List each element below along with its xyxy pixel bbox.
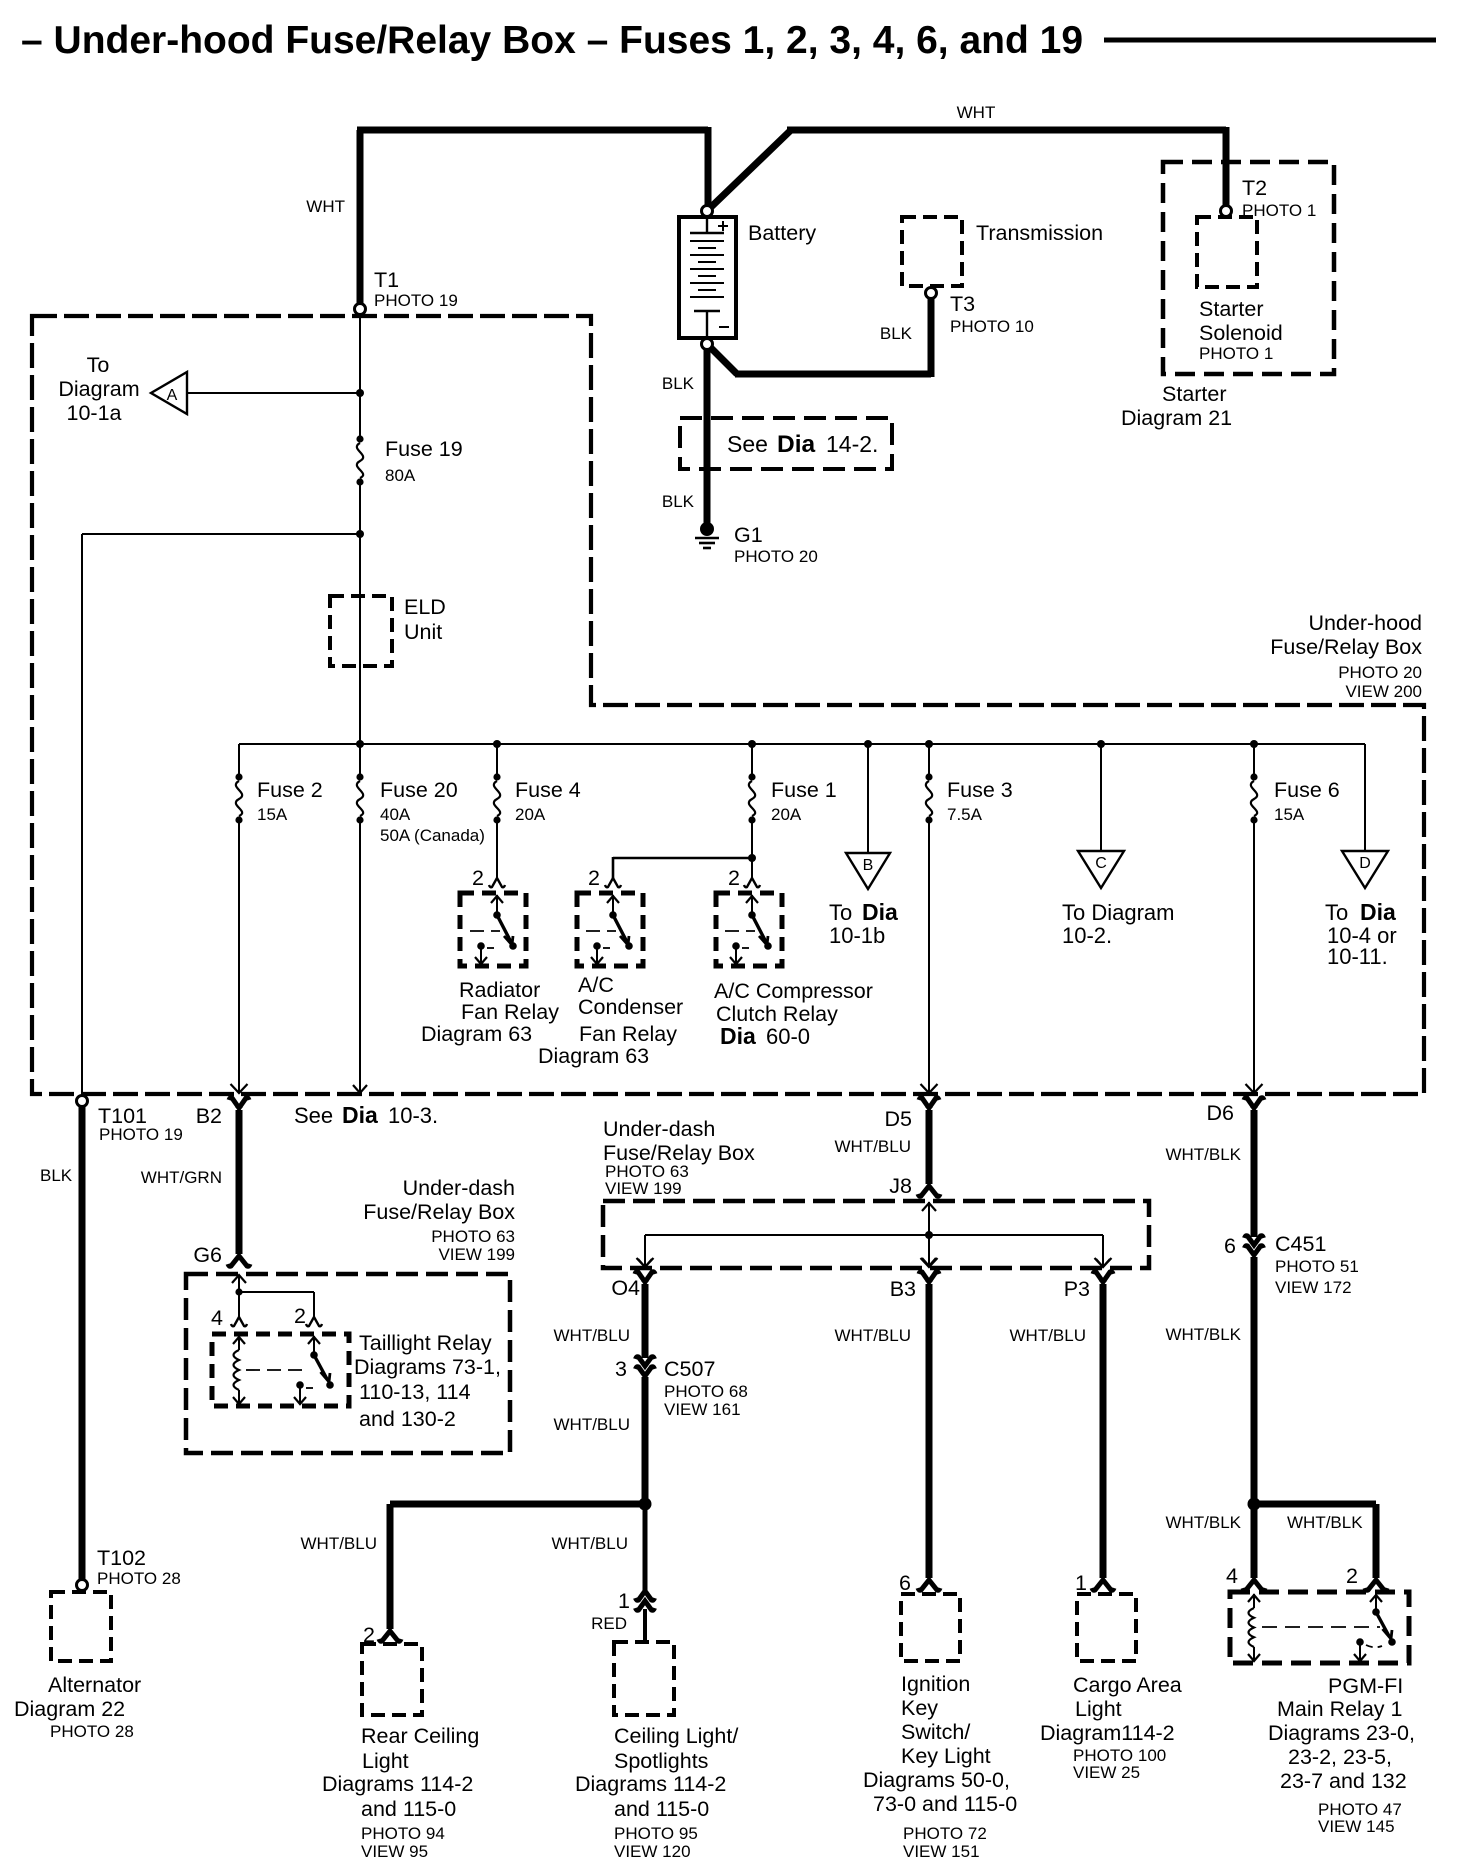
svg-text:Dia: Dia	[1360, 899, 1396, 925]
svg-text:PHOTO 10: PHOTO 10	[950, 317, 1034, 336]
svg-text:6: 6	[1224, 1234, 1236, 1258]
pin 4 taillight relay	[211, 1306, 247, 1330]
wire BLK battery negative to T3 transmission	[710, 297, 931, 377]
svg-text:WHT/BLU: WHT/BLU	[552, 1534, 629, 1553]
connector B3 exit	[890, 1258, 939, 1301]
fuse F6	[1250, 773, 1257, 823]
svg-text:VIEW 161: VIEW 161	[664, 1400, 741, 1419]
cargo area light box	[1077, 1594, 1136, 1661]
starter solenoid box	[1197, 217, 1257, 287]
svg-text:G6: G6	[193, 1243, 222, 1267]
svg-text:Diagrams 23-0,: Diagrams 23-0,	[1268, 1721, 1415, 1745]
wire WHT/BLK D6 to C451	[1251, 1110, 1258, 1237]
PGM-FI relay coil	[1248, 1594, 1260, 1661]
ground G1	[695, 522, 719, 548]
svg-text:VIEW 145: VIEW 145	[1318, 1817, 1395, 1836]
svg-text:WHT: WHT	[306, 197, 345, 216]
svg-text:Diagram: Diagram	[58, 377, 139, 401]
svg-text:VIEW 200: VIEW 200	[1345, 682, 1422, 701]
svg-text:To Diagram: To Diagram	[1062, 900, 1174, 925]
label BLK upper	[662, 374, 695, 393]
svg-text:G1: G1	[734, 523, 763, 547]
svg-text:T2: T2	[1242, 176, 1267, 200]
svg-text:Fuse/Relay Box: Fuse/Relay Box	[1270, 635, 1422, 659]
node bus T1 column	[356, 740, 364, 748]
svg-text:Condenser: Condenser	[578, 995, 683, 1019]
svg-text:Diagram 63: Diagram 63	[421, 1022, 532, 1046]
svg-text:P3: P3	[1064, 1277, 1090, 1301]
arrow see dia 10-3 exit	[353, 1085, 367, 1093]
wire bus to fuse 2	[238, 744, 240, 777]
wire bus to fuse 4	[496, 744, 498, 777]
svg-text:WHT/BLK: WHT/BLK	[1165, 1325, 1241, 1344]
label Fuse 2 15A	[257, 778, 323, 824]
svg-text:WHT/BLU: WHT/BLU	[554, 1326, 631, 1345]
pin 2 PGM-FI main relay	[1346, 1564, 1387, 1590]
fuse F3	[925, 773, 932, 823]
label WHT/BLU ceiling	[552, 1534, 629, 1553]
wire to diagram A arrow	[188, 392, 360, 394]
pin 4 PGM-FI main relay	[1226, 1564, 1265, 1590]
wire ELD to bus	[359, 666, 361, 744]
ignition key switch box	[901, 1594, 960, 1661]
AC condenser fan relay contact	[586, 895, 633, 964]
node bus branch B	[864, 740, 872, 748]
svg-text:BLK: BLK	[662, 374, 695, 393]
connector O4 exit	[611, 1258, 655, 1300]
connector G6 entry	[193, 1243, 250, 1267]
svg-text:23-7 and 132: 23-7 and 132	[1280, 1769, 1407, 1793]
wire bus to triangle C	[1100, 744, 1102, 851]
svg-text:2: 2	[294, 1304, 306, 1328]
label Ignition Key Switch block	[863, 1672, 1017, 1861]
pin 2 AC condenser fan relay	[588, 866, 621, 890]
label BLK T101 wire	[40, 1166, 73, 1185]
label WHT/BLK D6 mid	[1165, 1325, 1241, 1344]
svg-text:PHOTO 51: PHOTO 51	[1275, 1257, 1359, 1276]
svg-text:10-11.: 10-11.	[1327, 944, 1388, 969]
label T3	[950, 292, 1034, 336]
svg-text:VIEW 25: VIEW 25	[1073, 1763, 1140, 1782]
svg-text:PHOTO 94: PHOTO 94	[361, 1824, 445, 1843]
triangle B to dia 10-1b	[846, 853, 890, 889]
label Fuse 1 20A	[771, 778, 837, 824]
svg-text:D: D	[1359, 855, 1371, 872]
svg-text:WHT/BLU: WHT/BLU	[835, 1326, 912, 1345]
svg-text:14-2.: 14-2.	[826, 431, 878, 457]
transmission box	[902, 217, 962, 286]
label Taillight Relay Diagrams	[354, 1331, 501, 1431]
svg-text:Main Relay 1: Main Relay 1	[1277, 1697, 1402, 1721]
svg-text:Starter: Starter	[1199, 297, 1264, 321]
label Starter Solenoid	[1199, 297, 1283, 363]
label AC Condenser Fan Relay Diagram 63	[538, 973, 683, 1068]
svg-text:PHOTO 20: PHOTO 20	[1338, 663, 1422, 682]
svg-text:Fan Relay: Fan Relay	[461, 1000, 559, 1024]
svg-text:2: 2	[728, 866, 740, 890]
svg-text:D5: D5	[885, 1107, 913, 1131]
wire bus to fuse 1	[751, 744, 753, 777]
fuse F19	[356, 435, 363, 485]
svg-text:4: 4	[211, 1306, 223, 1330]
AC compressor clutch relay box	[716, 893, 782, 966]
svg-text:50A (Canada): 50A (Canada)	[380, 826, 485, 845]
label See Dia 10-3	[294, 1102, 438, 1128]
alternator box	[51, 1592, 111, 1661]
wire WHT/BLU O4 to C507	[642, 1284, 649, 1358]
pin 2 taillight relay	[294, 1304, 322, 1328]
svg-text:Dia: Dia	[720, 1023, 756, 1049]
under-dash fuse relay box G6 outline	[186, 1274, 510, 1453]
svg-text:Under-hood: Under-hood	[1308, 611, 1422, 635]
terminal T3	[926, 288, 937, 299]
svg-text:1: 1	[1075, 1571, 1087, 1595]
svg-text:4: 4	[1226, 1564, 1238, 1588]
svg-text:A: A	[167, 387, 178, 404]
node fuse1 branch to condenser relay	[748, 854, 756, 862]
svg-text:PHOTO 72: PHOTO 72	[903, 1824, 987, 1843]
wire bus to fuse 20	[359, 744, 361, 777]
svg-text:See: See	[294, 1103, 333, 1128]
label WHT/BLK D6 upper	[1165, 1145, 1241, 1164]
svg-text:Solenoid: Solenoid	[1199, 321, 1283, 345]
label T102	[97, 1546, 181, 1588]
label To Diagram 10-1a	[58, 353, 139, 425]
title rule line	[1104, 38, 1436, 43]
svg-text:2: 2	[472, 866, 484, 890]
svg-text:Fan Relay: Fan Relay	[579, 1022, 677, 1046]
wire to taillight pin 4	[238, 1292, 240, 1317]
label Fuse 19 80A	[385, 437, 463, 485]
wire fuse 1 down	[751, 820, 753, 878]
svg-text:Dia: Dia	[777, 431, 816, 458]
label AC Compressor Clutch Relay Dia 60-0	[714, 979, 873, 1049]
node ceiling light junction	[639, 1498, 652, 1511]
svg-text:PGM-FI: PGM-FI	[1328, 1674, 1403, 1698]
wire WHT/BLU P3 to cargo light	[1100, 1284, 1107, 1578]
svg-text:VIEW 199: VIEW 199	[438, 1245, 515, 1264]
terminal T1	[355, 304, 366, 315]
label WHT/BLU B3	[835, 1326, 912, 1345]
svg-text:T3: T3	[950, 292, 975, 316]
svg-text:WHT/BLK: WHT/BLK	[1165, 1513, 1241, 1532]
svg-text:80A: 80A	[385, 466, 416, 485]
PGM-FI relay link dashes	[1262, 1626, 1380, 1628]
svg-text:Cargo Area: Cargo Area	[1073, 1673, 1182, 1697]
svg-text:B2: B2	[196, 1104, 222, 1128]
wire WHT/BLU D5 to J8	[926, 1110, 933, 1184]
svg-text:Fuse 19: Fuse 19	[385, 437, 463, 461]
label WHT/GRN	[141, 1168, 222, 1187]
svg-text:Dia: Dia	[342, 1102, 378, 1128]
svg-text:A/C: A/C	[578, 973, 614, 997]
triangle D to dia 10-4 or 10-11	[1342, 851, 1388, 888]
starter outer box	[1163, 162, 1334, 374]
node bus fuse 6	[1250, 740, 1258, 748]
svg-text:Transmission: Transmission	[976, 221, 1103, 245]
svg-text:10-3.: 10-3.	[388, 1103, 438, 1128]
svg-text:Diagram 21: Diagram 21	[1121, 406, 1232, 430]
svg-text:Key: Key	[901, 1696, 938, 1720]
terminal T101 on box edge	[77, 1096, 88, 1107]
svg-text:PHOTO 63: PHOTO 63	[431, 1227, 515, 1246]
label WHT/BLU O4	[554, 1326, 631, 1345]
label WHT/BLK pin2	[1287, 1513, 1363, 1532]
svg-text:Alternator: Alternator	[48, 1673, 141, 1697]
label To Dia 10-1b	[829, 899, 898, 948]
svg-text:and 115-0: and 115-0	[614, 1797, 709, 1821]
radiator fan relay contact	[470, 895, 517, 964]
arrow to P3	[1096, 1259, 1110, 1267]
arrow to O4	[638, 1259, 652, 1267]
svg-text:C: C	[1095, 855, 1107, 872]
label To Diagram 10-2	[1062, 900, 1174, 948]
svg-text:15A: 15A	[1274, 805, 1305, 824]
label Fuse 4 20A	[515, 778, 581, 824]
wire branch to AC condenser relay	[613, 857, 752, 878]
svg-text:Under-dash: Under-dash	[403, 1176, 515, 1200]
svg-text:PHOTO 28: PHOTO 28	[97, 1569, 181, 1588]
svg-text:WHT/BLK: WHT/BLK	[1287, 1513, 1363, 1532]
svg-text:10-2.: 10-2.	[1062, 923, 1112, 948]
label WHT/BLU rear ceiling	[301, 1534, 378, 1553]
svg-text:6: 6	[899, 1571, 911, 1595]
wire bus to fuse 3	[928, 744, 930, 777]
pin 2 rear ceiling light	[363, 1623, 401, 1647]
svg-text:Rear Ceiling: Rear Ceiling	[361, 1724, 479, 1748]
svg-text:ELD: ELD	[404, 595, 446, 619]
label WHT/BLK pin4	[1165, 1513, 1241, 1532]
connector J8 entry	[889, 1174, 940, 1198]
svg-text:Diagram 22: Diagram 22	[14, 1697, 125, 1721]
svg-text:– Under-hood Fuse/Relay Box –: – Under-hood Fuse/Relay Box – Fuses 1, 2…	[21, 19, 1083, 62]
wire bus to triangle D	[1364, 744, 1366, 851]
taillight relay contact	[294, 1336, 334, 1404]
svg-text:Taillight Relay: Taillight Relay	[359, 1331, 492, 1355]
label WHT top wire	[957, 103, 996, 122]
svg-text:WHT/BLU: WHT/BLU	[301, 1534, 378, 1553]
svg-text:To: To	[1325, 900, 1348, 925]
svg-text:Under-dash: Under-dash	[603, 1117, 715, 1141]
svg-text:A/C Compressor: A/C Compressor	[714, 979, 873, 1003]
wire fuse 2 to B2 exit	[238, 820, 240, 1092]
label WHT/BLU P3	[1010, 1326, 1087, 1345]
svg-text:2: 2	[588, 866, 600, 890]
svg-text:Fuse 3: Fuse 3	[947, 778, 1013, 802]
node bus fuse 4	[493, 740, 501, 748]
wire fuse 3 to D5 exit	[928, 820, 930, 1092]
svg-text:73-0 and 115-0: 73-0 and 115-0	[873, 1792, 1017, 1816]
svg-text:VIEW 172: VIEW 172	[1275, 1278, 1352, 1297]
svg-text:WHT/BLU: WHT/BLU	[1010, 1326, 1087, 1345]
svg-text:23-2, 23-5,: 23-2, 23-5,	[1288, 1745, 1392, 1769]
svg-text:BLK: BLK	[662, 492, 695, 511]
svg-text:Diagrams 73-1,: Diagrams 73-1,	[354, 1355, 501, 1379]
node left branch junction	[356, 530, 364, 538]
wire fuse19 junction to ELD	[359, 534, 361, 666]
svg-text:Fuse/Relay Box: Fuse/Relay Box	[363, 1200, 515, 1224]
wire bus to fuse 6	[1253, 744, 1255, 777]
svg-text:Spotlights: Spotlights	[614, 1749, 708, 1773]
terminal T2	[1221, 206, 1232, 220]
wire junction to PGM-FI pin 4	[1251, 1504, 1258, 1578]
wire RED to ceiling light box	[643, 1609, 647, 1643]
svg-text:20A: 20A	[771, 805, 802, 824]
label Battery	[748, 221, 816, 245]
node bus fuse 1	[748, 740, 756, 748]
svg-text:See: See	[727, 431, 768, 457]
wire left branch to T101 column	[82, 534, 360, 1097]
pin 2 radiator fan relay	[472, 866, 505, 890]
under-hood fuse/relay box dashed outline	[32, 316, 1424, 1094]
terminal T102	[77, 1580, 88, 1591]
pin 6 ignition key switch	[899, 1571, 940, 1595]
svg-text:15A: 15A	[257, 805, 288, 824]
wire fuse 6 to D6 exit	[1253, 820, 1255, 1092]
wire WHT/BLU C507 to junction	[642, 1377, 649, 1504]
label T101	[98, 1104, 183, 1144]
label Under-dash Fuse/Relay Box right	[603, 1117, 755, 1198]
terminal battery positive	[702, 206, 713, 217]
ceiling light spotlights box	[614, 1642, 674, 1715]
svg-text:Switch/: Switch/	[901, 1720, 970, 1744]
label Transmission	[976, 221, 1103, 245]
svg-text:J8: J8	[889, 1174, 912, 1198]
svg-text:PHOTO 20: PHOTO 20	[734, 547, 818, 566]
label T1	[374, 268, 458, 310]
wire J8 vertical inside	[922, 1202, 936, 1266]
node taillight branch	[235, 1288, 242, 1295]
wire T1 to junction A	[359, 314, 361, 393]
fuse F4	[493, 773, 500, 823]
wire to taillight pin 2	[239, 1292, 314, 1317]
svg-text:T102: T102	[97, 1546, 146, 1570]
AC condenser fan relay box	[577, 893, 643, 966]
svg-text:C451: C451	[1275, 1232, 1326, 1256]
label C507 PHOTO 68 VIEW 161	[664, 1357, 748, 1419]
label D6	[1207, 1101, 1235, 1125]
svg-text:T1: T1	[374, 268, 399, 292]
label T2	[1242, 176, 1316, 220]
svg-text:Unit: Unit	[404, 620, 442, 644]
svg-text:D6: D6	[1207, 1101, 1235, 1125]
svg-text:Diagrams 114-2: Diagrams 114-2	[575, 1772, 726, 1796]
label C451 PHOTO 51 VIEW 172	[1275, 1232, 1359, 1297]
wire fuse 20 to see-dia exit	[359, 820, 361, 1092]
svg-text:PHOTO 19: PHOTO 19	[374, 291, 458, 310]
svg-text:VIEW 199: VIEW 199	[605, 1179, 682, 1198]
wire fuse 19 to left-branch junction	[359, 482, 361, 534]
node junction A branch	[356, 389, 364, 397]
svg-text:RED: RED	[591, 1614, 627, 1633]
svg-text:B: B	[863, 857, 874, 874]
label Radiator Fan Relay Diagram 63	[421, 978, 559, 1046]
svg-text:Fuse 4: Fuse 4	[515, 778, 581, 802]
wire J8 horizontal to O4 and P3	[645, 1235, 1103, 1266]
label PGM-FI Main Relay 1 block	[1268, 1674, 1415, 1836]
svg-text:BLK: BLK	[880, 324, 913, 343]
connector B2 exit	[229, 1084, 249, 1108]
connector C507	[615, 1357, 654, 1381]
arrow G6 into box	[232, 1275, 246, 1292]
svg-text:Radiator: Radiator	[459, 978, 540, 1002]
svg-text:7.5A: 7.5A	[947, 805, 983, 824]
svg-text:VIEW 151: VIEW 151	[903, 1842, 980, 1861]
node PGM-FI junction	[1248, 1498, 1261, 1511]
wire junction to PGM-FI pin 2	[1254, 1504, 1376, 1578]
svg-text:To: To	[87, 353, 110, 377]
wire WHT/BLK C451 to junction	[1251, 1257, 1258, 1504]
svg-text:PHOTO 95: PHOTO 95	[614, 1824, 698, 1843]
svg-text:40A: 40A	[380, 805, 411, 824]
wire WHT/GRN B2 to G6	[236, 1110, 243, 1254]
pin 2 AC compressor clutch relay	[728, 866, 760, 890]
wire junction to rear ceiling light	[390, 1504, 645, 1629]
see dia 14-2 box	[680, 418, 892, 469]
fuse F20	[356, 773, 363, 823]
svg-text:To: To	[829, 900, 852, 925]
svg-text:and 130-2: and 130-2	[359, 1407, 456, 1431]
svg-text:Diagram 63: Diagram 63	[538, 1044, 649, 1068]
svg-text:PHOTO 1: PHOTO 1	[1242, 201, 1316, 220]
svg-text:Key Light: Key Light	[901, 1744, 991, 1768]
svg-text:2: 2	[1346, 1564, 1358, 1588]
fuse F2	[235, 773, 242, 823]
connector P3 exit	[1064, 1258, 1113, 1301]
svg-text:VIEW 120: VIEW 120	[614, 1842, 691, 1861]
label WHT/BLU D5	[835, 1137, 912, 1156]
wire WHT/BLU B3 to ignition	[926, 1284, 933, 1578]
triangle A to diagram 10-1a	[151, 372, 187, 414]
svg-text:B3: B3	[890, 1277, 916, 1301]
svg-text:PHOTO 28: PHOTO 28	[50, 1722, 134, 1741]
svg-text:PHOTO 68: PHOTO 68	[664, 1382, 748, 1401]
label Rear Ceiling Light block	[322, 1724, 479, 1861]
svg-text:Starter: Starter	[1162, 382, 1227, 406]
svg-text:C507: C507	[664, 1357, 715, 1381]
title: Under-hood Fuse/Relay Box - Fuses 1, 2, 3, 4, 6, and 19	[21, 19, 1083, 62]
taillight relay coil	[233, 1336, 245, 1404]
triangle C to diagram 10-2	[1078, 851, 1124, 888]
svg-text:and 115-0: and 115-0	[361, 1797, 456, 1821]
taillight relay link dashes	[246, 1369, 302, 1371]
wire BLK T101 to T102	[79, 1106, 86, 1581]
svg-text:Ignition: Ignition	[901, 1672, 970, 1696]
label See Dia 14-2	[727, 431, 878, 458]
terminal battery negative	[702, 339, 713, 350]
svg-text:PHOTO 19: PHOTO 19	[99, 1125, 183, 1144]
PGM-FI relay contact	[1354, 1594, 1396, 1661]
rear ceiling light box	[362, 1644, 422, 1715]
svg-text:3: 3	[615, 1357, 627, 1381]
bus wire inside fuse box	[239, 743, 1365, 745]
label Fuse 20 40A 50A Canada	[380, 778, 485, 845]
ELD unit box	[330, 596, 392, 666]
radiator fan relay box	[460, 893, 526, 966]
wire WHT from T1 up and right to battery positive	[357, 127, 708, 305]
connector D6 exit	[1244, 1084, 1264, 1108]
svg-text:10-1a: 10-1a	[67, 401, 122, 425]
svg-text:Diagrams 50-0,: Diagrams 50-0,	[863, 1768, 1010, 1792]
svg-text:Dia: Dia	[862, 899, 898, 925]
node J8 junction	[925, 1231, 933, 1239]
svg-text:PHOTO 1: PHOTO 1	[1199, 344, 1273, 363]
label G1	[734, 523, 818, 566]
svg-text:Light: Light	[362, 1749, 409, 1773]
label Fuse 3 7.5A	[947, 778, 1013, 824]
svg-text:Diagram114-2: Diagram114-2	[1040, 1721, 1175, 1745]
label Under-hood Fuse/Relay Box	[1270, 611, 1422, 701]
